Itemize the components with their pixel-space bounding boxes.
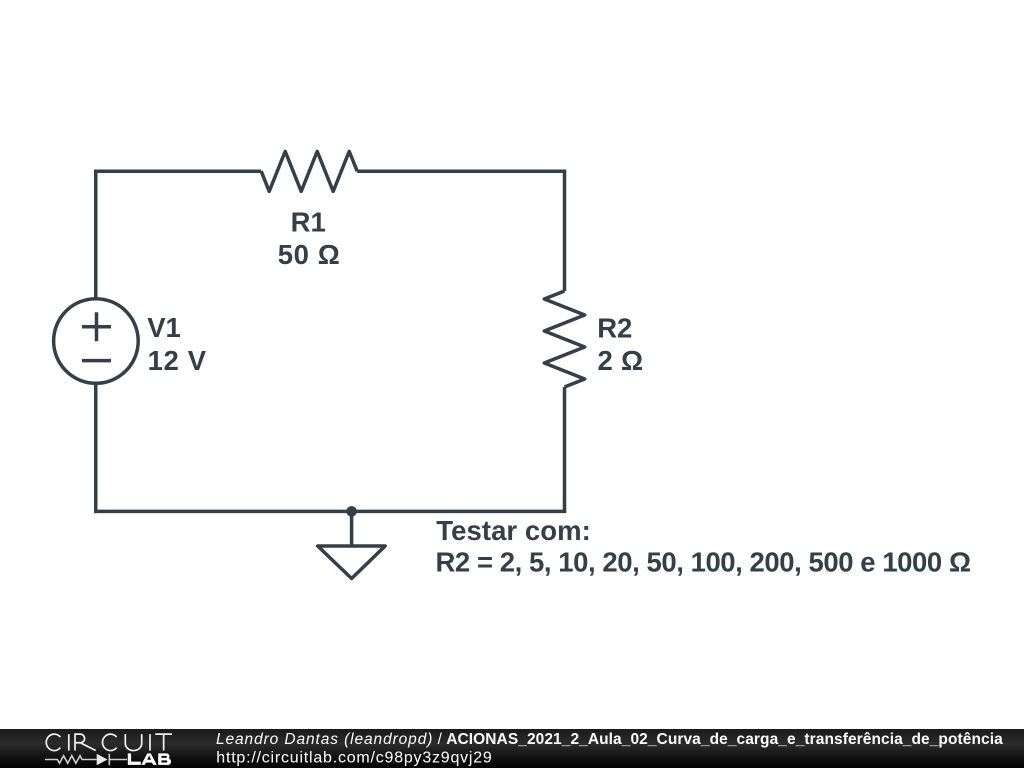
wire: top horizontal right segment from R1 to corner: [357, 169, 566, 173]
resistor R2: [544, 291, 584, 387]
wire: ground stub: [350, 511, 354, 546]
wire: left vertical lower segment from bottom corner up to V1 bottom terminal: [94, 383, 98, 513]
wire: top horizontal left segment to R1: [94, 169, 261, 173]
svg-text:2 Ω: 2 Ω: [598, 345, 644, 376]
node junction dot on bottom wire: [346, 506, 357, 517]
svg-text:50 Ω: 50 Ω: [278, 239, 340, 270]
svg-text:http://circuitlab.com/c98py3z9: http://circuitlab.com/c98py3z9qvj29: [216, 749, 492, 766]
CircuitLab logo: diode triangle: [97, 754, 108, 766]
footer bar: [0, 729, 1024, 768]
CircuitLab logo: CIRCUIT lettering: [46, 734, 172, 750]
voltage source V1: [54, 299, 139, 384]
CircuitLab logo: LAB lettering: [128, 753, 171, 765]
wire: right vertical lower segment from R2 to bottom corner: [563, 387, 567, 511]
resistor R1: [261, 151, 357, 191]
svg-text:R2: R2: [597, 312, 632, 343]
wire: bottom horizontal: [94, 510, 566, 514]
svg-text:V1: V1: [147, 312, 181, 343]
wire: top-left from V1 top terminal up to corner: [94, 171, 98, 299]
svg-text:R2 = 2, 5, 10, 20, 50, 100, 20: R2 = 2, 5, 10, 20, 50, 100, 200, 500 e 1…: [436, 547, 972, 578]
CircuitLab logo: wire squiggle with resistor and diode: [45, 754, 127, 766]
ground: [318, 546, 386, 579]
svg-text:12 V: 12 V: [148, 345, 207, 376]
svg-text:R1: R1: [291, 207, 326, 238]
svg-text:Leandro Dantas (leandropd) / A: Leandro Dantas (leandropd) / ACIONAS_202…: [216, 731, 1003, 748]
svg-text:Testar com:: Testar com:: [436, 515, 591, 546]
wire: right vertical upper segment down to R2: [563, 171, 567, 291]
